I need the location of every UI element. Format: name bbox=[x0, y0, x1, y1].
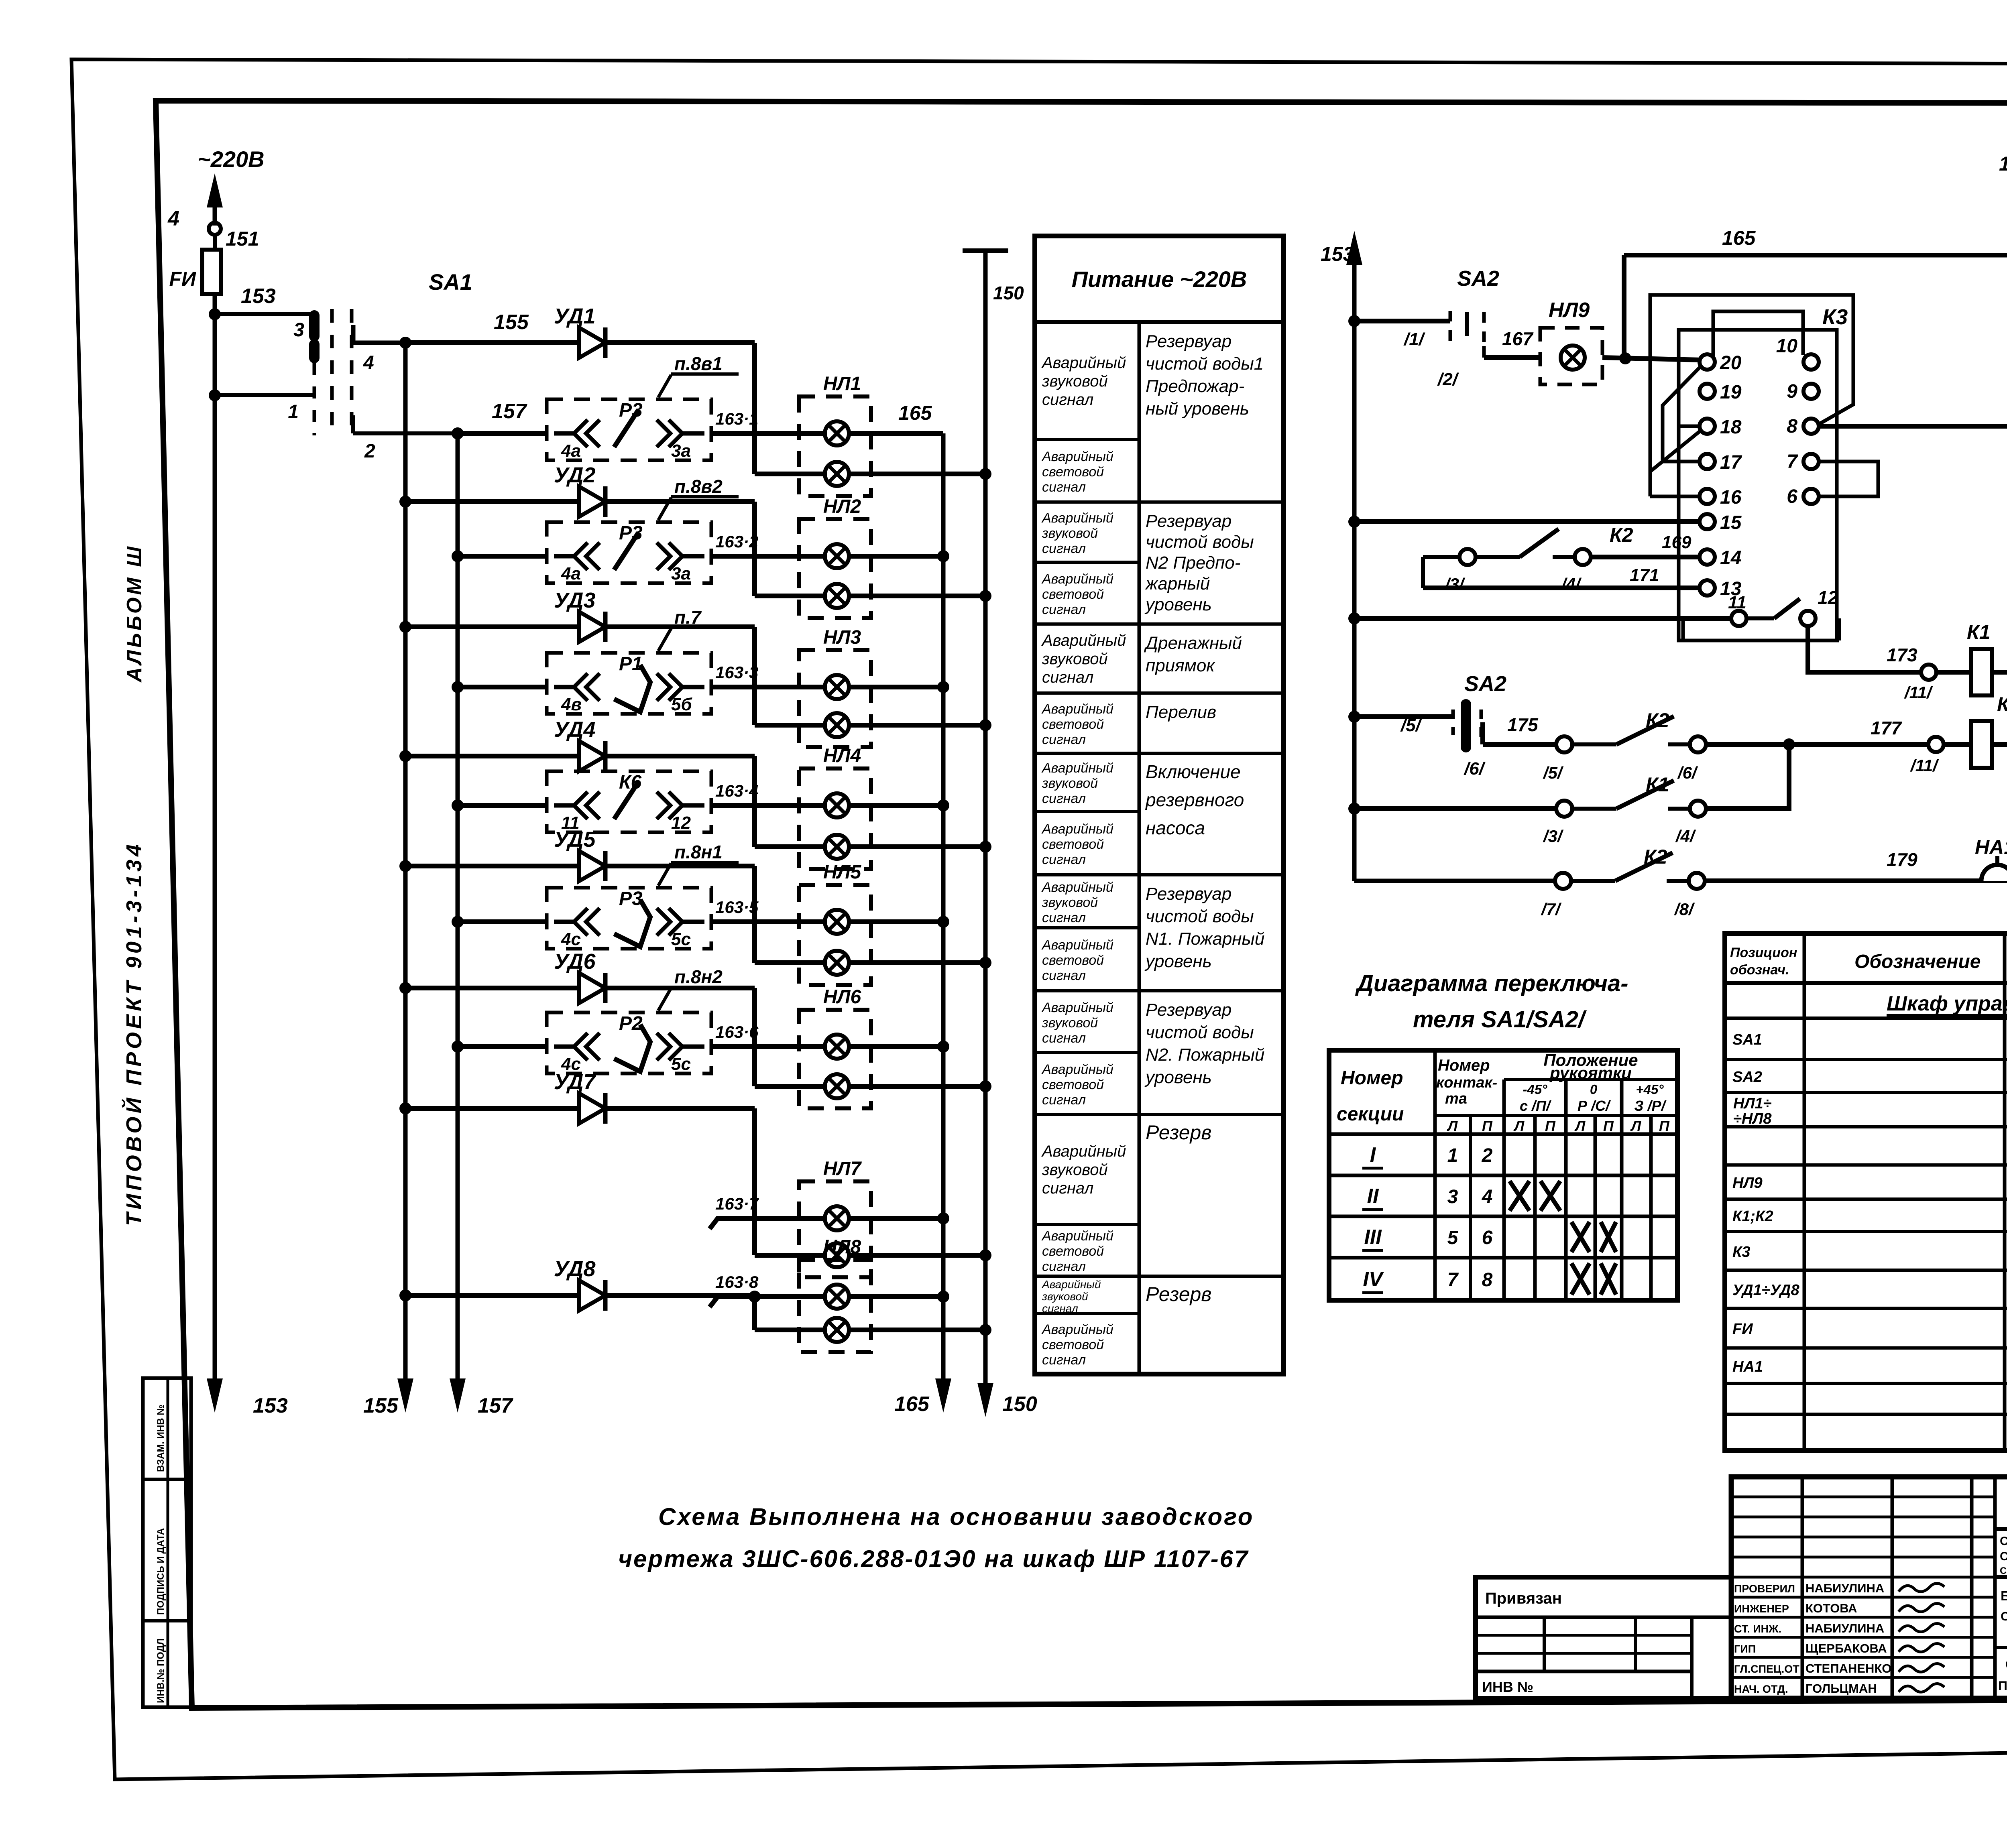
lamp НЛ7.1 sound bbox=[825, 1206, 849, 1230]
svg-text:звуковой: звуковой bbox=[1042, 895, 1098, 910]
svg-text:153: 153 bbox=[253, 1394, 288, 1417]
junction diode8/sound row bbox=[749, 1291, 761, 1303]
svg-text:15: 15 bbox=[1720, 512, 1742, 533]
wire 163-3 to lamp bbox=[711, 685, 825, 689]
svg-text:/5/: /5/ bbox=[1543, 763, 1564, 782]
svg-text:Резервуар: Резервуар bbox=[1146, 1000, 1231, 1020]
lamp box НЛ7 bbox=[799, 1181, 871, 1277]
contact blade 11-12 bbox=[1774, 599, 1800, 618]
wire lamp7 light to bus 150 bbox=[849, 1253, 985, 1258]
svg-text:151: 151 bbox=[226, 228, 259, 250]
svg-text:/4/: /4/ bbox=[1675, 827, 1696, 846]
relay contact box Р3 section 1 bbox=[547, 399, 711, 460]
wire 153 left bus bbox=[213, 294, 217, 1389]
lamp box НЛ9 bbox=[1540, 328, 1602, 384]
svg-text:световой: световой bbox=[1042, 1337, 1104, 1352]
svg-text:163·2: 163·2 bbox=[715, 532, 758, 551]
svg-text:п.8н1: п.8н1 bbox=[674, 842, 723, 862]
SA1 dashed link 3 bbox=[313, 363, 316, 435]
svg-text:Аварийный: Аварийный bbox=[1041, 449, 1113, 464]
lamp box НЛ5 bbox=[799, 885, 871, 985]
relay contact box Р2 section 6 bbox=[547, 1012, 711, 1073]
svg-text:163·5: 163·5 bbox=[715, 898, 759, 917]
junction 150/lamp5 bbox=[979, 957, 991, 969]
relay contact Р3 bbox=[554, 533, 704, 570]
junction 165/lamp8 bbox=[937, 1291, 949, 1303]
svg-text:световой: световой bbox=[1042, 1244, 1104, 1259]
svg-text:звуковой: звуковой bbox=[1042, 776, 1098, 791]
wire 157 to contact box 5 bbox=[458, 919, 547, 924]
wire УД1 output bbox=[605, 340, 755, 345]
svg-text:8: 8 bbox=[1787, 416, 1797, 437]
svg-text:/6/: /6/ bbox=[1464, 759, 1486, 779]
wire to light lamp 1 bbox=[755, 472, 825, 476]
svg-text:5с: 5с bbox=[671, 1054, 691, 1074]
relay contact К2 (175/177) bbox=[1556, 716, 1706, 752]
svg-text:Резервуар: Резервуар bbox=[1146, 511, 1231, 531]
wire to light lamp 2 bbox=[755, 594, 825, 598]
wire 163-1 to lamp bbox=[711, 431, 825, 436]
wire lamp2 sound to bus 165 bbox=[849, 554, 943, 559]
svg-text:УД1÷УД8: УД1÷УД8 bbox=[1732, 1282, 1799, 1299]
svg-text:контак-: контак- bbox=[1436, 1074, 1497, 1091]
К3 terminal 19 bbox=[1700, 384, 1715, 399]
svg-text:ГИП: ГИП bbox=[1734, 1643, 1756, 1655]
junction 153/SA1-3 bbox=[209, 308, 221, 320]
svg-text:Аварийный: Аварийный bbox=[1041, 880, 1113, 895]
junction 157/row 6 bbox=[452, 1041, 464, 1053]
svg-text:световой: световой bbox=[1042, 1077, 1104, 1092]
svg-text:/7/: /7/ bbox=[1541, 900, 1562, 919]
svg-text:К2: К2 bbox=[1997, 693, 2007, 716]
lamp box НЛ6 bbox=[799, 1010, 871, 1108]
svg-text:сигнал: сигнал bbox=[1042, 480, 1086, 495]
lamp НЛ9 bbox=[1561, 346, 1585, 370]
svg-text:НЛ3: НЛ3 bbox=[823, 627, 861, 648]
X mark row III col П(0) bbox=[1601, 1222, 1616, 1252]
wire 155 to УД7 bbox=[405, 1106, 579, 1111]
relay contact К2 (169) bbox=[1459, 529, 1591, 565]
svg-text:157: 157 bbox=[492, 400, 527, 423]
wire down to light lamp 6 bbox=[752, 988, 757, 1086]
svg-text:С СОДЕРЖАНИЕМ ВЗВЕШЕННЫХ ВЕЩЕС: С СОДЕРЖАНИЕМ ВЗВЕШЕННЫХ ВЕЩЕСТВ ДО 700 … bbox=[2000, 1550, 2007, 1563]
junction 165/lamp3 bbox=[937, 681, 949, 693]
wire 163-7 stub bbox=[710, 1218, 825, 1229]
svg-text:звуковой: звуковой bbox=[1042, 526, 1098, 541]
svg-text:4: 4 bbox=[167, 207, 179, 230]
svg-text:163·1: 163·1 bbox=[715, 409, 758, 428]
svg-text:чистой воды: чистой воды bbox=[1146, 1023, 1254, 1042]
svg-text:приямок: приямок bbox=[1146, 656, 1215, 675]
svg-text:169: 169 bbox=[1662, 533, 1691, 552]
wire lamp1 light to bus 150 bbox=[849, 472, 985, 476]
svg-text:N1. Пожарный: N1. Пожарный bbox=[1146, 929, 1264, 949]
svg-text:II: II bbox=[1367, 1185, 1379, 1208]
wire 153 to SA1 contact 3 bbox=[215, 312, 314, 316]
К3 wiring rectangle A bbox=[1650, 295, 1853, 496]
svg-text:167: 167 bbox=[1502, 328, 1534, 349]
junction 150/lamp4 bbox=[979, 841, 991, 853]
svg-text:177: 177 bbox=[1871, 718, 1902, 738]
X mark row II col П(-45) bbox=[1541, 1181, 1560, 1211]
svg-text:К2: К2 bbox=[1644, 846, 1667, 868]
lamp НЛ5.1 sound bbox=[825, 910, 849, 934]
lamp НЛ5.2 light bbox=[825, 951, 849, 975]
svg-text:НАЧ. ОТД.: НАЧ. ОТД. bbox=[1734, 1683, 1788, 1695]
svg-text:сигнал: сигнал bbox=[1042, 968, 1086, 983]
svg-text:Номер: Номер bbox=[1341, 1067, 1403, 1089]
svg-text:К6: К6 bbox=[619, 772, 642, 793]
svg-text:171: 171 bbox=[1630, 565, 1659, 585]
svg-text:ЩЕРБАКОВА: ЩЕРБАКОВА bbox=[1805, 1641, 1887, 1655]
svg-text:резервного: резервного bbox=[1145, 789, 1244, 810]
svg-text:СТЕПАНЕНКО: СТЕПАНЕНКО bbox=[1805, 1661, 1891, 1675]
К3 terminal 18 bbox=[1700, 419, 1715, 434]
bus 165 left section bbox=[941, 433, 946, 1389]
svg-text:165: 165 bbox=[1999, 152, 2007, 175]
wire 163-8 stub bbox=[710, 1297, 825, 1307]
svg-text:Резервуар: Резервуар bbox=[1146, 884, 1231, 904]
svg-text:FИ: FИ bbox=[169, 268, 196, 290]
wire lamp5 sound to bus 165 bbox=[849, 919, 943, 924]
wire down to light lamp 5 bbox=[752, 866, 757, 963]
svg-text:НЛ8: НЛ8 bbox=[823, 1236, 861, 1258]
X mark row II col Л(-45) bbox=[1510, 1181, 1529, 1211]
svg-text:п.8в1: п.8в1 bbox=[674, 353, 723, 374]
svg-text:Привязан: Привязан bbox=[1485, 1590, 1562, 1607]
junction 155 bus top bbox=[399, 337, 411, 349]
svg-text:П: П bbox=[1545, 1118, 1556, 1134]
svg-text:17: 17 bbox=[1720, 452, 1742, 473]
junction 150/lamp3 bbox=[979, 719, 991, 731]
svg-text:18: 18 bbox=[1720, 417, 1742, 438]
lamp box НЛ1 bbox=[799, 396, 871, 496]
svg-text:ГОЛЬЦМАН: ГОЛЬЦМАН bbox=[1805, 1681, 1877, 1696]
svg-text:сигнал: сигнал bbox=[1042, 391, 1093, 409]
svg-text:SA2: SA2 bbox=[1457, 266, 1499, 291]
wire 155 to УД6 bbox=[405, 986, 579, 990]
К3 terminal 17 bbox=[1700, 454, 1715, 469]
svg-text:7: 7 bbox=[1447, 1269, 1459, 1291]
lamp НЛ2.2 light bbox=[825, 584, 849, 608]
svg-text:Номер: Номер bbox=[1438, 1057, 1490, 1074]
junction 155/УД4 bbox=[399, 750, 411, 762]
wire down to light lamp 2 bbox=[752, 502, 757, 596]
svg-text:ПРИНЦИПИАЛЬНАЯ СИГНАЛИЗАЦИИ: ПРИНЦИПИАЛЬНАЯ СИГНАЛИЗАЦИИ bbox=[1998, 1679, 2007, 1693]
wire 151 bbox=[213, 235, 217, 250]
svg-text:+45°: +45° bbox=[1636, 1082, 1664, 1097]
diode УД8 bbox=[579, 1280, 605, 1311]
svg-text:Аварийный: Аварийный bbox=[1041, 1228, 1113, 1244]
К3 terminal 16 bbox=[1700, 489, 1715, 504]
svg-text:/4/: /4/ bbox=[1561, 575, 1582, 594]
svg-text:150: 150 bbox=[993, 283, 1024, 303]
wire down to light lamp 8 bbox=[752, 1295, 757, 1330]
junction 165 riser bbox=[1619, 352, 1631, 364]
junction 165/lamp6 bbox=[937, 1041, 949, 1053]
svg-text:секции: секции bbox=[1337, 1104, 1404, 1125]
svg-text:Включение: Включение bbox=[1146, 761, 1241, 782]
К3 terminal 13 bbox=[1700, 580, 1715, 596]
lamp box НЛ4 bbox=[799, 768, 871, 869]
wire УД8 output bbox=[605, 1293, 755, 1298]
lamp НЛ3.1 sound bbox=[825, 675, 849, 699]
svg-text:Аварийный: Аварийный bbox=[1041, 821, 1113, 837]
svg-text:Р3: Р3 bbox=[619, 888, 643, 909]
wire 163-6 to lamp bbox=[711, 1044, 825, 1049]
lamp box НЛ3 bbox=[799, 650, 871, 747]
wire 157 left bus bbox=[456, 433, 460, 1389]
svg-text:ВЗАМ. ИНВ №: ВЗАМ. ИНВ № bbox=[155, 1405, 166, 1472]
svg-text:157: 157 bbox=[478, 1394, 513, 1417]
X mark row IV col П(0) bbox=[1601, 1263, 1616, 1295]
svg-text:Р /С/: Р /С/ bbox=[1578, 1098, 1611, 1114]
diode УД7 bbox=[579, 1093, 605, 1124]
junction 150/lamp8 bbox=[979, 1324, 991, 1336]
relay contact Р3 bbox=[554, 900, 704, 947]
svg-text:12: 12 bbox=[671, 813, 691, 833]
wire 155 to УД3 bbox=[405, 624, 579, 629]
wire down to light lamp 1 bbox=[752, 343, 757, 474]
switch SA2 contact bars bbox=[1449, 311, 1452, 345]
junction 165/lamp4 bbox=[937, 799, 949, 811]
svg-text:П: П bbox=[1659, 1118, 1670, 1134]
svg-text:163·7: 163·7 bbox=[715, 1194, 759, 1213]
wire to К2 contact (179) bbox=[1354, 879, 1555, 883]
svg-text:165: 165 bbox=[894, 1393, 930, 1416]
svg-text:165: 165 bbox=[898, 402, 932, 424]
svg-text:4а: 4а bbox=[561, 441, 581, 461]
svg-text:173: 173 bbox=[1887, 644, 1917, 665]
junction 155/УД3 bbox=[399, 621, 411, 633]
svg-text:N2 Предпо-: N2 Предпо- bbox=[1146, 553, 1240, 573]
svg-text:150: 150 bbox=[1002, 1393, 1037, 1416]
svg-text:IV: IV bbox=[1363, 1268, 1384, 1291]
svg-text:СТАНЦИЯ ОЧИСТКИ ВОДЫ ПОВЕРХНОС: СТАНЦИЯ ОЧИСТКИ ВОДЫ ПОВЕРХНОСТНЫХ ИСТОЧ… bbox=[2000, 1535, 2007, 1548]
svg-text:НЛ9: НЛ9 bbox=[1549, 299, 1590, 322]
К3 7-6 loop bbox=[1819, 461, 1878, 496]
svg-text:/5/: /5/ bbox=[1400, 716, 1423, 735]
svg-text:чистой воды: чистой воды bbox=[1146, 532, 1254, 552]
svg-text:Л: Л bbox=[1630, 1118, 1642, 1134]
svg-text:жарный: жарный bbox=[1145, 574, 1210, 594]
svg-text:К1: К1 bbox=[1646, 773, 1669, 796]
svg-text:III: III bbox=[1364, 1226, 1382, 1249]
switch diagram table bbox=[1329, 1050, 1677, 1300]
relay contact box Р1 section 3 bbox=[547, 653, 711, 714]
svg-text:ИНВ.№ ПОДЛ: ИНВ.№ ПОДЛ bbox=[155, 1638, 166, 1703]
svg-text:Резервуар: Резервуар bbox=[1146, 331, 1231, 351]
svg-text:НЛ2: НЛ2 bbox=[823, 496, 861, 517]
wire lamp6 sound to bus 165 bbox=[849, 1044, 943, 1049]
svg-text:3а: 3а bbox=[671, 441, 691, 461]
junction 150/lamp1 bbox=[979, 468, 991, 480]
svg-text:ПРОВЕРИЛ: ПРОВЕРИЛ bbox=[1734, 1583, 1795, 1595]
lamp НЛ8.1 sound bbox=[825, 1285, 849, 1309]
wire УД5 output bbox=[605, 864, 755, 868]
wire 153 right bus bbox=[1352, 255, 1357, 279]
svg-text:СТ. ИНЖ.: СТ. ИНЖ. bbox=[1734, 1623, 1781, 1635]
svg-text:К2: К2 bbox=[1610, 524, 1633, 546]
svg-text:Перелив: Перелив bbox=[1146, 702, 1216, 722]
svg-text:Шкаф управления ШР 1107-67: Шкаф управления ШР 1107-67 bbox=[1887, 992, 2007, 1015]
svg-text:п.8в2: п.8в2 bbox=[674, 476, 723, 497]
svg-text:БЛОК СЛУЖЕБНЫХ ПОМЕЩЕНИЙ: БЛОК СЛУЖЕБНЫХ ПОМЕЩЕНИЙ bbox=[2001, 1588, 2007, 1603]
wire 165 drop to НЛ9 line bbox=[1622, 255, 1626, 358]
svg-text:рукоятки: рукоятки bbox=[1549, 1063, 1632, 1082]
wire УД6 output bbox=[605, 986, 755, 990]
table Питание ~220В bbox=[1035, 236, 1284, 1374]
wire to К3 terminal 15 bbox=[1354, 519, 1700, 524]
svg-text:УД7: УД7 bbox=[554, 1070, 597, 1094]
svg-text:С МЕДЛЕННЫМИ ФИЛЬТРАМИ ПРОИЗВО: С МЕДЛЕННЫМИ ФИЛЬТРАМИ ПРОИЗВОДИТЕЛЬНОСТ… bbox=[2000, 1565, 2007, 1576]
svg-text:НЛ1÷: НЛ1÷ bbox=[1733, 1095, 1772, 1112]
lamp НЛ2.1 sound bbox=[825, 544, 849, 568]
svg-text:К1;К2: К1;К2 bbox=[1732, 1208, 1773, 1225]
lamp НЛ3.2 light bbox=[825, 713, 849, 737]
К3 diagonal 20-17 bbox=[1663, 366, 1701, 461]
switch SA1 contact bars bbox=[309, 315, 320, 336]
wire 157 to contact box 1 bbox=[458, 431, 547, 436]
junction 165/lamp7 bbox=[937, 1212, 949, 1224]
svg-text:I: I bbox=[1370, 1143, 1376, 1167]
svg-text:УД6: УД6 bbox=[554, 949, 596, 974]
wire lamp5 light to bus 150 bbox=[849, 960, 985, 965]
lamp НЛ4.1 sound bbox=[825, 793, 849, 817]
svg-text:Аварийный: Аварийный bbox=[1041, 937, 1113, 953]
svg-text:153: 153 bbox=[1321, 243, 1354, 265]
svg-text:К2: К2 bbox=[1646, 709, 1669, 732]
svg-text:НЛ1: НЛ1 bbox=[823, 373, 861, 394]
svg-text:звуковой: звуковой bbox=[1042, 1290, 1088, 1303]
wire down to light lamp 3 bbox=[752, 627, 757, 725]
svg-text:Аварийный: Аварийный bbox=[1041, 760, 1113, 776]
svg-text:16: 16 bbox=[1720, 487, 1742, 508]
svg-text:сигнал: сигнал bbox=[1042, 1302, 1078, 1315]
svg-text:5: 5 bbox=[1447, 1227, 1459, 1248]
junction 157/row 2 bbox=[452, 550, 464, 562]
svg-text:П: П bbox=[1603, 1118, 1614, 1134]
svg-text:П: П bbox=[1482, 1118, 1493, 1134]
lamp НЛ4.2 light bbox=[825, 835, 849, 859]
svg-text:НЛ7: НЛ7 bbox=[823, 1158, 862, 1179]
svg-text:СХЕМА ЭЛЕКТРИЧЕСКАЯ: СХЕМА ЭЛЕКТРИЧЕСКАЯ bbox=[2005, 1656, 2007, 1673]
svg-text:обознач.: обознач. bbox=[1730, 962, 1789, 978]
svg-text:с /П/: с /П/ bbox=[1520, 1098, 1552, 1114]
svg-text:сигнал: сигнал bbox=[1042, 1179, 1093, 1197]
wire to contact 11 bbox=[1354, 616, 1731, 621]
wire lamp4 light to bus 150 bbox=[849, 844, 985, 849]
relay contact box Р3 section 2 bbox=[547, 522, 711, 583]
wire К1 contact to 177 junction bbox=[1706, 744, 1789, 809]
svg-text:УД3: УД3 bbox=[554, 588, 596, 612]
wire to SA1 contact 1 bbox=[215, 393, 314, 397]
svg-text:К3: К3 bbox=[1732, 1244, 1751, 1260]
svg-text:4с: 4с bbox=[561, 929, 581, 949]
svg-text:0: 0 bbox=[1590, 1082, 1598, 1097]
svg-text:Р1: Р1 bbox=[619, 653, 643, 675]
lamp НЛ7.2 light bbox=[825, 1243, 849, 1267]
svg-text:3: 3 bbox=[1447, 1186, 1458, 1208]
svg-text:К3: К3 bbox=[1822, 305, 1848, 329]
svg-text:/1/: /1/ bbox=[1403, 329, 1426, 349]
wire 175 bbox=[1483, 742, 1556, 747]
svg-text:8: 8 bbox=[1482, 1269, 1493, 1291]
diode УД3 bbox=[579, 612, 605, 642]
wire 153 arrow down bbox=[213, 1308, 217, 1389]
svg-text:ный уровень: ный уровень bbox=[1146, 399, 1249, 419]
svg-text:ИНВ №: ИНВ № bbox=[1482, 1679, 1533, 1695]
svg-text:179: 179 bbox=[1887, 849, 1917, 870]
wire to 220V supply bbox=[213, 197, 217, 226]
svg-text:Резерв: Резерв bbox=[1146, 1121, 1211, 1144]
wire 155 bbox=[351, 325, 356, 343]
svg-text:З /Р/: З /Р/ bbox=[1634, 1098, 1667, 1114]
svg-text:НА1: НА1 bbox=[1975, 836, 2007, 858]
svg-text:Аварийный: Аварийный bbox=[1041, 571, 1113, 587]
wire 165 top bus bbox=[1624, 253, 2007, 258]
wire lamp3 sound to bus 165 bbox=[849, 685, 943, 689]
К3 wiring rectangle B (20-10 bridge) bbox=[1713, 311, 1803, 356]
lamp НЛ8.2 light bbox=[825, 1318, 849, 1342]
svg-text:Р2: Р2 bbox=[619, 1013, 643, 1034]
wire 167 bbox=[1484, 355, 1540, 360]
lamp НЛ1.1 sound bbox=[825, 421, 849, 445]
wire 155 to УД4 bbox=[405, 754, 579, 758]
svg-text:чистой воды: чистой воды bbox=[1146, 907, 1254, 926]
junction 157/row 4 bbox=[452, 799, 464, 811]
svg-text:звуковой: звуковой bbox=[1042, 1161, 1108, 1179]
bus 150 left section with top rail bbox=[963, 248, 1008, 253]
svg-text:SA2: SA2 bbox=[1732, 1069, 1762, 1086]
К3 terminal 7 bbox=[1803, 454, 1819, 469]
wire 163-4 to lamp bbox=[711, 803, 825, 808]
lamp НЛ6.1 sound bbox=[825, 1035, 849, 1059]
К3 contact 11 bbox=[1731, 611, 1746, 626]
node 4 terminal bbox=[213, 205, 217, 223]
К3 lower box bbox=[1683, 639, 1839, 642]
svg-text:2: 2 bbox=[1482, 1145, 1493, 1166]
svg-text:ИНЖЕНЕР: ИНЖЕНЕР bbox=[1734, 1603, 1789, 1615]
junction 153/К1 row bbox=[1348, 803, 1360, 815]
svg-text:Аварийный: Аварийный bbox=[1041, 1322, 1113, 1337]
svg-text:Аварийный: Аварийный bbox=[1041, 632, 1126, 649]
junction 155/УД8 bbox=[399, 1289, 411, 1301]
svg-text:звуковой: звуковой bbox=[1042, 650, 1108, 668]
svg-text:теля SA1/SA2/: теля SA1/SA2/ bbox=[1413, 1006, 1587, 1033]
junction 150/lamp2 bbox=[979, 590, 991, 602]
К3 diagonal 18 stub bbox=[1650, 430, 1701, 472]
fuse FИ bbox=[202, 250, 221, 294]
svg-text:1: 1 bbox=[1447, 1145, 1458, 1166]
junction 153/SA2 bbox=[1348, 315, 1360, 327]
wire to light lamp 7 bbox=[755, 1253, 825, 1258]
wire lamp7 sound to bus 165 bbox=[849, 1216, 943, 1221]
svg-text:165: 165 bbox=[1722, 227, 1756, 249]
bell НА1 bbox=[1981, 865, 2007, 881]
wire lamp8 light to bus 150 bbox=[849, 1328, 985, 1332]
lamp box НЛ2 bbox=[799, 519, 871, 618]
wire 157 bbox=[351, 415, 355, 433]
relay contact К6 bbox=[554, 782, 704, 819]
wire lamp4 sound to bus 165 bbox=[849, 803, 943, 808]
svg-text:Л: Л bbox=[1447, 1118, 1458, 1134]
svg-text:SA1: SA1 bbox=[1732, 1031, 1762, 1048]
svg-text:3: 3 bbox=[293, 319, 304, 341]
wire lamp1 to bus 165 corner bbox=[849, 431, 943, 436]
relay contact box Р3 section 5 bbox=[547, 888, 711, 949]
svg-text:Аварийный: Аварийный bbox=[1041, 510, 1113, 526]
